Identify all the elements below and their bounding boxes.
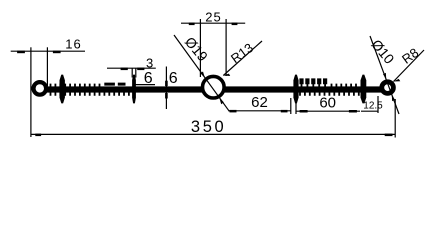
center bulb bbox=[203, 76, 225, 98]
leader R13 bbox=[223, 41, 262, 76]
rib 4 bbox=[361, 75, 367, 104]
right top ledge bbox=[299, 78, 327, 87]
dim 62 line bbox=[229, 110, 291, 112]
svg-text:25: 25 bbox=[205, 9, 221, 24]
dim 3 tick right bbox=[135, 68, 137, 77]
right serration teeth bottom bbox=[299, 92, 360, 96]
dim 16 line bbox=[11, 50, 85, 52]
arrow 62 left bbox=[230, 110, 237, 113]
arrow R13 bbox=[223, 74, 230, 76]
arrow 25 left bbox=[189, 23, 195, 26]
svg-text:350: 350 bbox=[191, 118, 226, 136]
svg-text:3: 3 bbox=[146, 55, 153, 70]
dim 6 vertical line bbox=[165, 67, 167, 110]
left serration teeth top bbox=[50, 84, 101, 87]
arrow 25 right bbox=[232, 23, 238, 26]
dim 3 line bbox=[107, 67, 156, 69]
dim 350 line bbox=[31, 133, 395, 135]
right serration teeth top bbox=[331, 84, 357, 87]
rib 2 bbox=[132, 75, 136, 104]
svg-text:60: 60 bbox=[319, 95, 336, 112]
arrow 16 left bbox=[17, 51, 25, 54]
arrow 60 left bbox=[300, 110, 308, 113]
leader R8 bbox=[394, 50, 425, 82]
dim 6 leader tick bbox=[133, 85, 135, 87]
left end grip bulb bbox=[34, 82, 47, 95]
extension 62 right bbox=[290, 98, 292, 114]
dim 3 tick left bbox=[131, 68, 133, 77]
arrow 62 right bbox=[281, 110, 288, 113]
extension 25 left bbox=[199, 19, 201, 77]
arrow 16 right bbox=[53, 51, 61, 54]
dim 60 line bbox=[296, 110, 360, 112]
extension 60 left bbox=[295, 103, 297, 114]
dim 25 line bbox=[181, 22, 245, 24]
arrow R8 bbox=[394, 79, 401, 82]
arrow dia10 top bbox=[383, 73, 386, 80]
svg-text:6: 6 bbox=[144, 70, 153, 87]
leader dia10 bbox=[370, 36, 399, 114]
svg-text:6: 6 bbox=[169, 70, 178, 87]
leader dia19 bbox=[174, 35, 229, 111]
arrow 6 upper bbox=[165, 81, 168, 87]
left top ledge bbox=[104, 83, 125, 86]
arrow 350 right bbox=[385, 134, 393, 137]
right end bulb bbox=[382, 82, 394, 94]
arrow 60 right bbox=[349, 110, 357, 113]
svg-text:62: 62 bbox=[251, 94, 268, 111]
arrow dia19 bottom bbox=[219, 98, 223, 104]
arrow dia19 top bbox=[200, 72, 204, 78]
arrow 3 left bbox=[121, 68, 128, 71]
extension 350 right bbox=[394, 99, 396, 138]
extension line 16 right bbox=[46, 47, 48, 86]
extension 12.5 right bbox=[377, 96, 379, 113]
extension 25 right bbox=[225, 19, 227, 76]
rib 3 bbox=[293, 75, 298, 104]
arrow 350 left bbox=[35, 134, 41, 137]
extension line left long bbox=[30, 47, 32, 137]
arrow 6 lower bbox=[165, 93, 168, 99]
wing bar bbox=[47, 86, 382, 92]
arrow dia10 bottom bbox=[392, 95, 395, 102]
arrow 3 right bbox=[137, 68, 144, 71]
left serration teeth bottom bbox=[50, 92, 130, 96]
svg-text:12.5: 12.5 bbox=[363, 100, 383, 111]
dim 12.5 underline bbox=[361, 110, 378, 112]
svg-text:16: 16 bbox=[65, 37, 81, 52]
dim 6 leader underline bbox=[134, 84, 155, 86]
rib 1 bbox=[60, 75, 65, 104]
